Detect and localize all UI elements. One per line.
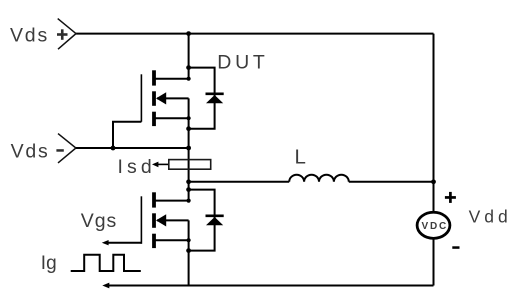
node: Q2 drain junction [187,199,191,203]
node: inductor right junction [431,179,436,184]
Q2 gate bar [140,196,142,244]
inductor L [289,175,349,182]
wire: right rail upper segment [433,34,435,213]
wire: top rail (Vds+ probe to right rail) [76,33,434,35]
label + (Vds plus sign) [57,29,68,40]
wire: Q2 body-diode branch [189,190,215,251]
svg-text:Isd: Isd [118,156,156,178]
Q2 channel segments [152,192,156,207]
wire: Q2 gate lead with probe arrow [102,240,142,245]
wire: main rail middle segment (Q1 source node down to Q2 drain) [188,98,190,200]
wire: Q1 body-diode branch [189,68,215,129]
node: Q2 source junction [187,238,191,242]
node: Q2 body-diode split junction [186,187,191,192]
transistor Q1 (DUT MOSFET) [141,70,188,126]
svg-text:Vds: Vds [10,25,49,47]
svg-text:DUT: DUT [217,51,268,73]
probe chevron Vds- [58,134,76,163]
node: Q1 body-diode split junction [186,65,191,70]
Q1 gate bar [140,74,142,122]
node: Q1 drain junction [187,77,191,81]
node: top rail junction [186,31,191,36]
wire: Q1 gate wire (gate bar to Vds- tap) [113,122,141,148]
label - (Vds minus sign) [56,149,63,152]
wire: main rail lower segment (Q2 source to bottom rail) [188,220,190,285]
Q1 substrate arrow [157,97,189,99]
svg-text:L: L [295,145,306,168]
Ig double-pulse waveform [71,255,141,271]
Q1 drain lead [154,78,189,80]
wire: right rail lower segment [433,238,435,286]
wire: main rail upper segment (top junction to Q1 drain) [188,34,190,79]
diode D2 (Q2 body diode) [206,216,224,226]
Q1 channel segments [152,70,156,85]
voltage source V1 (VDC) [417,212,450,238]
transistor Q2 (low-side MOSFET) [141,192,188,248]
svg-text:Vdd: Vdd [469,206,512,226]
Q1 source lead [154,117,189,119]
svg-text:Vds: Vds [11,141,50,163]
wire: Vds- probe wire to main rail [76,147,189,149]
node: Vds- rail junction [186,146,191,151]
Q2 source lead [154,239,189,241]
svg-text:VDC: VDC [422,221,449,232]
node: Q1 source junction [187,116,191,120]
Q2 substrate arrow [157,219,189,221]
wire: bottom rail with probe arrow [102,283,433,289]
svg-text:Vgs: Vgs [81,210,118,232]
node: gate tap junction [111,146,116,151]
label + (Vdd polarity) [445,192,456,203]
shunt resistor Isd sense box [169,160,211,170]
wire: switch-node wire to inductor [189,181,290,183]
wire: inductor to right rail [349,181,434,183]
label - (Vdd polarity minus) [452,246,459,249]
diode D1 (Q1 body diode) [206,94,224,104]
node: inductor left junction [186,179,191,184]
node: Q1 diode rejoin junction [186,126,191,131]
probe chevron Vds+ [58,19,76,50]
Isd callout arrow [152,162,169,168]
node: Q2 diode rejoin junction [186,248,191,253]
svg-text:Ig: Ig [41,253,57,274]
Q2 drain lead [154,200,189,202]
